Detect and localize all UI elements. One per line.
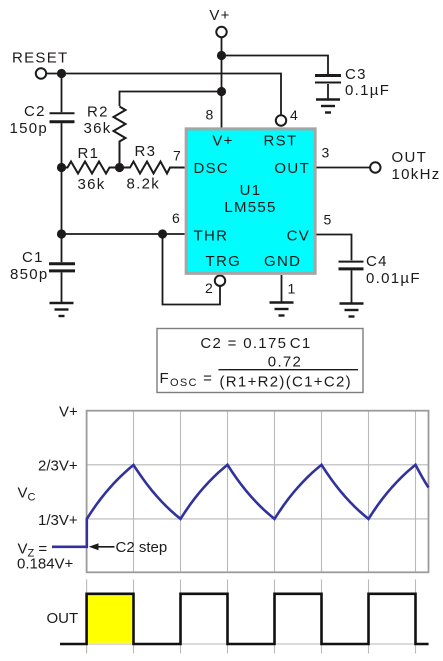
svg-text:4: 4 [290,107,299,123]
OUT section grid verticals [87,580,416,654]
node junction RESET [57,69,66,78]
wire TRG loop [163,234,221,305]
pin 2 open circle [215,276,225,286]
node junction R1 left [57,163,66,172]
svg-text:36k: 36k [84,120,112,137]
svg-text:C2 = 0.175 C1: C2 = 0.175 C1 [200,335,311,352]
yellow first pulse fill [88,595,133,643]
svg-text:RESET: RESET [12,50,69,67]
svg-text:3: 3 [322,145,331,161]
node junction TRG branch [158,229,167,238]
svg-text:0.1µF: 0.1µF [345,82,390,99]
node junction R2/V+ rail [217,87,226,96]
svg-text:OUT: OUT [274,160,310,177]
svg-text:7: 7 [173,148,182,164]
resistor R3 [120,162,185,174]
wire left rail to C1 [61,234,63,262]
svg-text:U1: U1 [240,182,262,199]
node junction V+/C3 [217,51,226,60]
svg-text:8.2k: 8.2k [127,176,161,193]
capacitor C4 [339,262,364,304]
svg-text:R3: R3 [135,143,157,160]
svg-text:TRG: TRG [206,253,242,270]
wire pin 1 GND [281,275,283,303]
resistor R1 [62,162,120,174]
OUT terminal circle [370,162,380,172]
chart border [87,411,429,573]
svg-text:RST: RST [264,133,298,150]
OUT square wave [60,594,429,644]
svg-text:C2: C2 [24,103,46,120]
svg-text:V+: V+ [209,7,230,24]
svg-text:2: 2 [205,280,214,296]
OUT section baseline gridline [87,643,429,645]
svg-text:C1: C1 [22,249,44,266]
svg-text:DSC: DSC [194,160,230,177]
svg-text:R2: R2 [87,104,109,121]
wire pin 5 to C4 [317,235,352,261]
wire left rail RESET to C2 [61,74,63,113]
RESET terminal circle [36,68,46,78]
svg-text:THR: THR [194,228,229,245]
wire to C3 [222,56,329,76]
svg-text:0.184V+: 0.184V+ [17,556,74,573]
svg-text:OUT: OUT [47,610,79,627]
svg-text:10kHz: 10kHz [392,166,441,183]
svg-text:5: 5 [324,212,333,228]
wire pin 3 to OUT terminal [317,167,370,169]
capacitor C1 [49,264,75,271]
capacitor C3 [315,76,341,100]
C2 step arrow [89,543,115,550]
wire THR line to pin 6 [62,233,185,235]
resistor R2 vertical [114,107,126,168]
svg-text:6: 6 [172,210,181,226]
pin 4 open circle [276,115,286,125]
chart grid verticals [134,411,416,573]
svg-text:1: 1 [288,281,297,297]
chart grid horizontals [87,465,429,519]
svg-text:LM555: LM555 [224,199,276,216]
svg-text:2/3V+: 2/3V+ [38,457,78,474]
wire R2 top to V+ rail [120,92,222,107]
svg-text:150p: 150p [10,120,49,137]
svg-text:8: 8 [206,107,215,123]
ground below pin 1 [270,303,294,316]
wire V+ rail down to pin 8 [221,38,223,129]
svg-text:36k: 36k [78,176,106,193]
capacitor C2 [50,113,75,121]
svg-text:(R1+R2)(C1+C2): (R1+R2)(C1+C2) [220,374,352,391]
svg-text:CV: CV [287,228,310,245]
fraction bar [219,369,359,371]
wire C2 to R1 node [61,123,63,167]
svg-text:1/3V+: 1/3V+ [38,512,78,529]
V+ terminal circle [216,27,226,37]
svg-text:0.72: 0.72 [268,354,302,371]
ground below C3 [316,100,340,113]
svg-text:0.01µF: 0.01µF [366,270,421,287]
ground below C4 [340,304,364,317]
svg-text:C2 step: C2 step [116,539,168,556]
ground below C1 [50,303,74,316]
formula box [157,329,363,393]
wire C1 to ground [61,272,63,303]
svg-text:R1: R1 [78,145,100,162]
node junction R1/R2/R3 [115,163,124,172]
svg-text:V+: V+ [59,404,78,421]
svg-text:850p: 850p [10,266,49,283]
svg-text:GND: GND [264,253,301,270]
wire left rail to THR node [61,168,63,235]
svg-text:C4: C4 [366,253,388,270]
VC waveform [52,465,429,547]
svg-text:OUT: OUT [392,149,428,166]
svg-text:V+: V+ [212,133,233,150]
wire RESET to RST pin 4 [47,74,282,116]
op IC U1 LM555 body [186,129,315,273]
node junction THR left [57,229,66,238]
svg-text:C3: C3 [345,66,367,83]
